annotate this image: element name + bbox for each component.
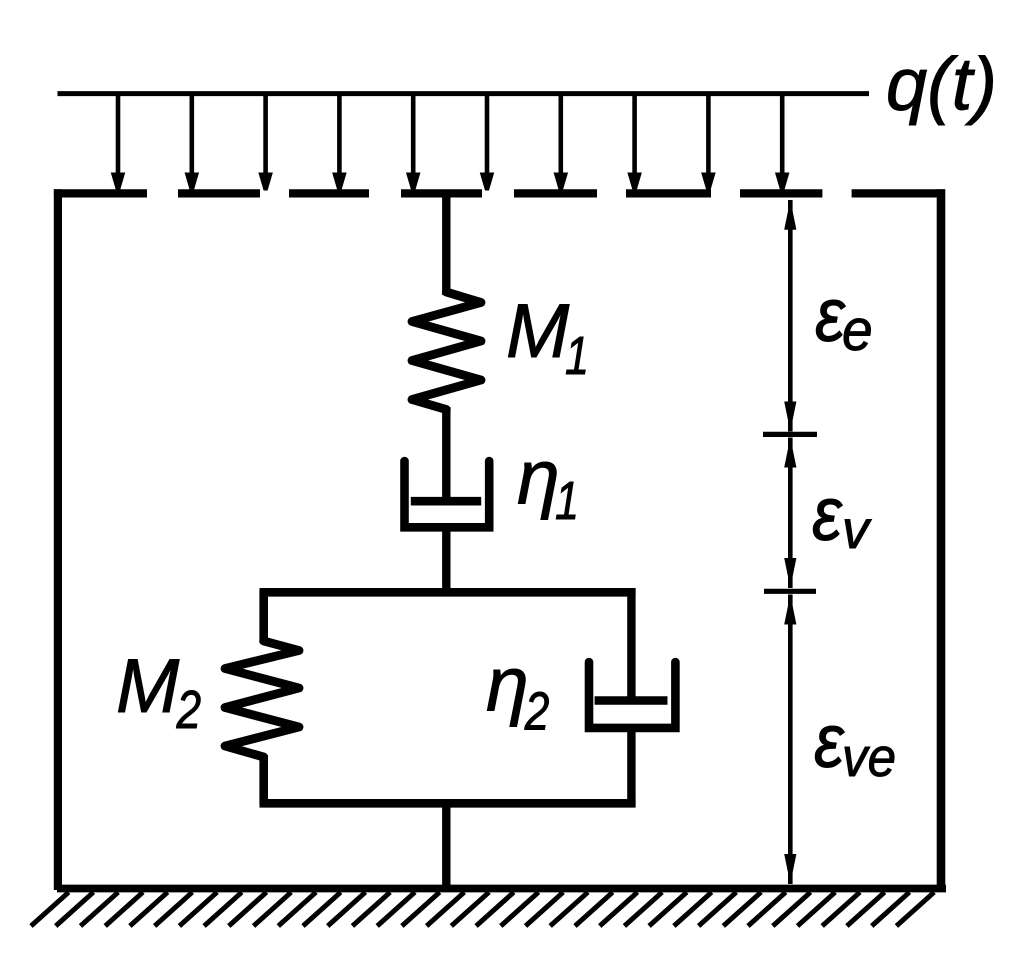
load arrow 9 [706, 95, 711, 177]
ground hatching [31, 892, 934, 926]
rod: dashpot eta1 to Kelvin box [442, 527, 450, 594]
dimension line epsilon_v [788, 438, 793, 589]
rod: Kelvin box to ground [442, 801, 450, 890]
svg-text:2: 2 [176, 680, 202, 740]
box top edge dash 8 [852, 189, 945, 197]
load arrow 3 [263, 95, 268, 177]
box top edge dash 6 [626, 189, 711, 197]
Kelvin box left edge lower [259, 755, 268, 805]
dashpot eta1 piston plate [411, 497, 481, 506]
Kelvin box right edge lower [627, 727, 635, 805]
svg-text:η: η [486, 642, 529, 728]
load arrow 8 [632, 95, 637, 177]
svg-text:2: 2 [524, 681, 550, 741]
box top edge dash 3 [289, 189, 369, 197]
ground line [57, 885, 946, 893]
dimension line epsilon_ve [788, 595, 793, 885]
svg-text:q(t): q(t) [886, 43, 997, 126]
load arrow 7 [558, 95, 563, 177]
svg-text:ε: ε [812, 472, 843, 557]
Kelvin box bottom edge [260, 799, 636, 808]
dashpot eta2 cup [589, 662, 675, 728]
svg-text:M: M [116, 644, 180, 729]
box top edge dash 2 [178, 189, 260, 197]
box top edge dash 4 [401, 189, 482, 197]
svg-text:1: 1 [555, 472, 579, 532]
Kelvin box top edge [260, 588, 636, 597]
load arrow 6 [485, 95, 490, 177]
svg-text:ε: ε [814, 699, 845, 784]
dashpot eta1 cup [405, 461, 490, 527]
spring M2 [225, 641, 299, 757]
specimen right wall [937, 189, 946, 890]
svg-text:ve: ve [842, 727, 896, 788]
svg-text:1: 1 [565, 327, 589, 387]
load arrow 2 [190, 95, 195, 177]
box top edge dash 5 [514, 189, 597, 197]
rod: spring M1 to dashpot eta1 piston [442, 407, 450, 501]
spring M1 [412, 292, 481, 410]
load line q(t) [58, 91, 870, 96]
svg-text:η: η [517, 434, 560, 520]
svg-text:e: e [842, 298, 873, 363]
load arrow 4 [337, 95, 342, 177]
dimension line epsilon_e [788, 200, 793, 432]
specimen left wall [54, 189, 62, 890]
load arrow 1 [116, 95, 121, 177]
box top edge dash 7 [740, 189, 822, 197]
svg-text:v: v [842, 500, 872, 560]
load arrow 5 [411, 95, 416, 177]
dashpot eta2 piston plate [595, 696, 668, 705]
Kelvin box right edge upper / eta2 rod [627, 590, 635, 701]
load arrow 10 [780, 95, 785, 177]
tick 2 [764, 589, 816, 594]
Kelvin box left edge upper [259, 590, 268, 643]
box top edge dash 1 [54, 189, 147, 197]
tick 1 [763, 432, 817, 437]
svg-text:M: M [506, 289, 570, 374]
rod: top edge to spring M1 [442, 193, 450, 295]
